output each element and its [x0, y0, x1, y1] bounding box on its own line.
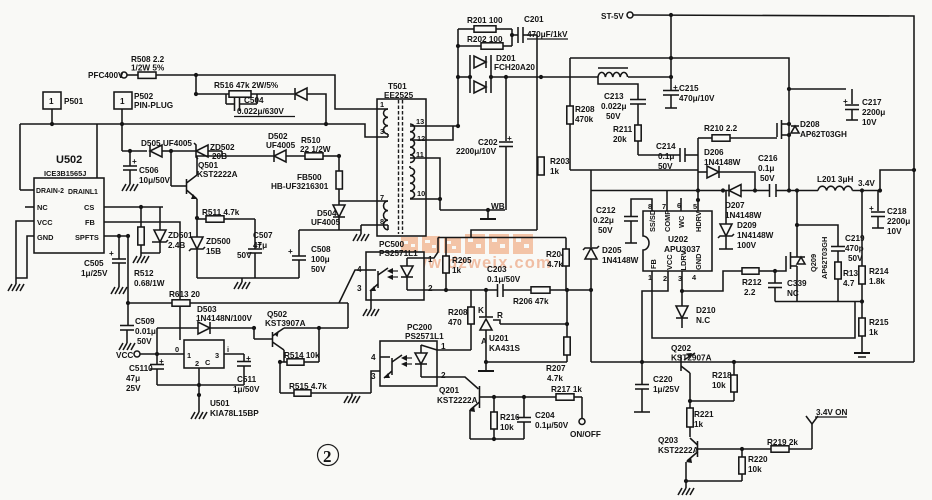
transformer T501 EE2525	[377, 82, 426, 236]
svg-text:50V: 50V	[848, 254, 863, 263]
node	[878, 188, 882, 192]
svg-text:1: 1	[187, 351, 191, 360]
capacitor C217	[843, 89, 859, 120]
transistor Q501	[171, 151, 197, 199]
svg-text:1/2W 5%: 1/2W 5%	[131, 64, 165, 73]
node	[120, 122, 124, 126]
label C508	[311, 245, 331, 274]
node	[194, 73, 198, 77]
wire emitter drop	[347, 303, 349, 328]
svg-text:3.4V ON: 3.4V ON	[816, 408, 847, 417]
svg-text:2: 2	[441, 371, 446, 380]
svg-text:1: 1	[120, 97, 125, 106]
node	[696, 198, 700, 202]
node	[732, 360, 736, 364]
svg-text:C220: C220	[653, 375, 673, 384]
svg-text:R212: R212	[742, 278, 762, 287]
wire PC200 pin2 to Q201 base	[437, 377, 479, 389]
label C218	[887, 207, 910, 236]
svg-text:D210: D210	[696, 306, 716, 315]
IC U501	[175, 340, 259, 418]
svg-text:R217 1k: R217 1k	[551, 385, 582, 394]
wire row 230	[471, 230, 537, 238]
svg-text:4.7: 4.7	[843, 279, 855, 288]
svg-text:Q209: Q209	[809, 254, 818, 272]
svg-text:ZD502: ZD502	[210, 143, 235, 152]
node	[492, 395, 496, 399]
svg-text:10μ/50V: 10μ/50V	[139, 176, 170, 185]
wire pin6 stub	[680, 198, 682, 211]
resistor R221	[687, 401, 714, 437]
node	[522, 395, 526, 399]
transistor Q502	[254, 328, 284, 350]
svg-text:D502: D502	[268, 132, 288, 141]
resistor R206	[513, 287, 591, 306]
svg-text:Q203: Q203	[658, 436, 678, 445]
svg-text:ICE3B1565J: ICE3B1565J	[44, 169, 86, 178]
svg-text:C506: C506	[139, 166, 159, 175]
svg-text:D209: D209	[737, 221, 757, 230]
optocoupler PC200	[371, 323, 446, 386]
svg-text:R210 2.2: R210 2.2	[704, 124, 738, 133]
svg-text:D206: D206	[704, 148, 724, 157]
ground	[119, 343, 135, 350]
svg-text:R510: R510	[301, 136, 321, 145]
svg-text:VCC: VCC	[665, 254, 674, 270]
svg-text:0.22μ: 0.22μ	[593, 216, 614, 225]
wire NC stub	[25, 206, 34, 208]
svg-text:+: +	[109, 249, 114, 258]
wire rail 362	[591, 361, 642, 363]
wire VCC stub	[16, 221, 34, 282]
wire	[96, 124, 98, 178]
svg-text:2.2: 2.2	[744, 288, 756, 297]
svg-text:C216: C216	[758, 154, 778, 163]
svg-text:R208: R208	[575, 105, 595, 114]
svg-text:4: 4	[692, 273, 697, 282]
svg-text:R211: R211	[613, 125, 633, 134]
svg-text:DRAIN-2: DRAIN-2	[36, 188, 64, 195]
node	[565, 288, 569, 292]
wire SPFTS row	[104, 235, 128, 237]
wire	[51, 109, 53, 124]
svg-text:R613 20: R613 20	[169, 290, 200, 299]
ground	[133, 256, 149, 263]
svg-text:0.1μ: 0.1μ	[758, 164, 774, 173]
svg-text:R208: R208	[448, 308, 468, 317]
svg-text:1k: 1k	[452, 266, 462, 275]
wire	[20, 189, 34, 191]
wire Q502 collector	[283, 350, 285, 362]
svg-text:2200μ/10V: 2200μ/10V	[456, 147, 497, 156]
node	[680, 289, 684, 293]
capacitor C218	[869, 191, 885, 229]
svg-text:2: 2	[195, 359, 199, 368]
node	[139, 205, 143, 209]
svg-text:C507: C507	[253, 231, 273, 240]
node	[197, 383, 201, 387]
wire	[195, 75, 197, 94]
wire PC500 pin1 up	[424, 238, 438, 259]
svg-text:Q502: Q502	[267, 310, 287, 319]
svg-text:470k: 470k	[575, 115, 594, 124]
ground U201	[478, 362, 494, 371]
svg-text:KST2222A: KST2222A	[197, 170, 238, 179]
resistor R210	[698, 124, 777, 141]
svg-text:DRAINL1: DRAINL1	[68, 189, 98, 196]
svg-text:HB-UF3216301: HB-UF3216301	[271, 182, 329, 191]
svg-text:PS2571L1: PS2571L1	[379, 249, 418, 258]
node	[753, 188, 757, 192]
dual diode D201	[470, 54, 535, 93]
wire	[19, 124, 21, 190]
wire PC200 pin1	[437, 349, 471, 351]
wire	[566, 290, 568, 324]
wire Q209 source	[796, 266, 798, 302]
wire Q209 drain	[797, 191, 838, 247]
capacitor C213	[601, 92, 646, 125]
wire	[127, 74, 138, 76]
svg-text:R218: R218	[712, 371, 732, 380]
svg-text:K: K	[478, 306, 484, 315]
wire PC500 pin2 row 290	[424, 289, 497, 291]
svg-text:1μ/25V: 1μ/25V	[81, 269, 108, 278]
T501 core	[399, 100, 403, 234]
svg-text:1k: 1k	[694, 420, 704, 429]
svg-text:GND: GND	[37, 233, 54, 242]
svg-text:47μ: 47μ	[253, 241, 267, 250]
svg-text:25V: 25V	[126, 384, 141, 393]
label Q201	[437, 386, 478, 405]
T501 primary winding 1-3	[377, 100, 388, 137]
node	[489, 75, 493, 79]
label C505	[81, 259, 108, 278]
svg-text:D503: D503	[197, 305, 217, 314]
svg-text:COMP: COMP	[663, 210, 672, 232]
svg-text:3: 3	[215, 351, 219, 360]
ground	[353, 234, 369, 241]
svg-text:13: 13	[416, 117, 424, 126]
svg-text:2: 2	[323, 447, 332, 466]
wire	[590, 170, 592, 247]
svg-text:C203: C203	[487, 265, 507, 274]
node	[155, 352, 159, 356]
node	[126, 234, 130, 238]
node	[539, 75, 543, 79]
wire drain bus	[20, 124, 377, 137]
wire to PC200 pin3	[371, 371, 380, 393]
svg-text:C509: C509	[135, 317, 155, 326]
wire pin10	[426, 198, 440, 200]
svg-text:ST-5V: ST-5V	[601, 12, 624, 21]
diode D210	[676, 291, 716, 328]
svg-text:1N4148W: 1N4148W	[602, 256, 639, 265]
resistor R510	[300, 136, 339, 159]
wire	[788, 89, 790, 191]
resistor R205	[443, 238, 472, 291]
wire	[590, 290, 592, 362]
capacitor C203	[487, 265, 531, 297]
node	[787, 133, 791, 137]
svg-text:R215: R215	[869, 318, 889, 327]
wire	[628, 76, 671, 78]
node	[688, 399, 692, 403]
wire row 397	[494, 396, 556, 398]
wire x458 vertical	[457, 29, 459, 126]
capacitor C212	[593, 199, 652, 243]
connector P502 PIN-PLUG	[114, 92, 173, 110]
wire	[852, 190, 880, 192]
svg-text:50V: 50V	[760, 174, 775, 183]
node	[669, 13, 673, 17]
svg-text:100μ: 100μ	[311, 255, 330, 264]
svg-text:C217: C217	[862, 98, 882, 107]
node	[128, 149, 132, 153]
capacitor C504	[226, 94, 257, 111]
svg-text:0.022μ/630V: 0.022μ/630V	[237, 107, 284, 116]
svg-text:C511: C511	[237, 375, 257, 384]
svg-text:PIN-PLUG: PIN-PLUG	[134, 101, 173, 110]
wire rail 362 left	[486, 361, 567, 363]
svg-text:FB: FB	[649, 259, 658, 269]
wire	[307, 94, 326, 124]
resistor R511	[197, 208, 240, 222]
label C504	[234, 96, 295, 117]
svg-text:+: +	[288, 247, 293, 256]
wire row 481	[686, 480, 742, 482]
svg-text:R206 47k: R206 47k	[513, 297, 549, 306]
node	[795, 223, 799, 227]
svg-text:D208: D208	[800, 120, 820, 129]
node	[669, 75, 673, 79]
U202 top pin numbers	[648, 201, 697, 211]
svg-text:KA431S: KA431S	[489, 344, 520, 353]
svg-text:15B: 15B	[206, 247, 221, 256]
svg-text:R214: R214	[869, 267, 889, 276]
svg-text:470p: 470p	[845, 244, 864, 253]
label Q203	[658, 436, 699, 455]
capacitor C339	[768, 271, 807, 302]
node	[696, 188, 700, 192]
terminal PFC400V	[88, 71, 127, 80]
svg-text:0.68/1W: 0.68/1W	[134, 279, 165, 288]
svg-text:PS2571L1: PS2571L1	[405, 332, 444, 341]
label Q502	[265, 310, 306, 328]
svg-text:ON/OFF: ON/OFF	[570, 430, 601, 439]
node	[444, 288, 448, 292]
resistor R216	[491, 397, 520, 439]
resistor R212	[742, 268, 775, 297]
node	[456, 75, 460, 79]
svg-text:12: 12	[417, 134, 425, 143]
resistor R208 470k	[567, 105, 595, 170]
node	[456, 124, 460, 128]
label C507	[237, 231, 273, 260]
svg-text:C505: C505	[84, 259, 104, 268]
svg-text:R221: R221	[694, 410, 714, 419]
capacitor C511	[199, 354, 260, 394]
wire	[569, 58, 571, 106]
wire C201 right down	[536, 35, 538, 230]
svg-text:7: 7	[662, 202, 666, 211]
svg-text:U202: U202	[668, 234, 688, 244]
svg-text:U501: U501	[210, 399, 230, 408]
mosfet D208	[777, 120, 847, 139]
svg-text:10k: 10k	[712, 381, 726, 390]
diode D502	[222, 132, 305, 162]
wire CS row	[104, 206, 163, 208]
svg-text:1N4148W: 1N4148W	[737, 231, 774, 240]
svg-text:KIA78L15BP: KIA78L15BP	[210, 409, 259, 418]
ground	[191, 395, 207, 419]
svg-text:0.01μ: 0.01μ	[135, 327, 156, 336]
svg-text:C5110: C5110	[129, 364, 153, 373]
svg-text:1: 1	[49, 97, 54, 106]
svg-text:WC: WC	[677, 215, 686, 228]
node	[787, 188, 791, 192]
wire FB pin1 feedback	[652, 271, 855, 338]
svg-text:P502: P502	[134, 92, 154, 101]
node	[324, 122, 328, 126]
label C217	[862, 98, 885, 127]
T501 secondary winding 11-10	[410, 166, 426, 199]
wire to transformer pin1	[196, 75, 377, 109]
node	[510, 33, 514, 37]
IC U202	[643, 211, 712, 271]
resistor R220	[739, 449, 768, 481]
label Q202	[671, 344, 712, 363]
wire	[670, 15, 672, 77]
svg-text:UF4005: UF4005	[311, 218, 341, 227]
transistor Q203	[686, 438, 742, 481]
transistor Q201	[469, 386, 494, 439]
node	[787, 122, 791, 126]
svg-text:AP62T03GH: AP62T03GH	[800, 130, 847, 139]
ground	[344, 393, 360, 403]
svg-text:D201: D201	[496, 54, 516, 63]
wire VCC up to D503	[156, 328, 158, 354]
svg-text:C201: C201	[524, 15, 544, 24]
svg-text:R: R	[497, 311, 503, 320]
capacitor C509	[120, 303, 156, 346]
svg-text:470μ/10V: 470μ/10V	[679, 94, 715, 103]
terminal ON/OFF	[570, 397, 601, 439]
capacitor C508	[288, 230, 306, 278]
wire bottom row	[197, 277, 299, 279]
resistor R202	[458, 35, 512, 49]
svg-text:L201 3μH: L201 3μH	[817, 175, 853, 184]
node	[169, 149, 173, 153]
svg-text:SS/SD: SS/SD	[648, 209, 657, 232]
node	[438, 197, 442, 201]
resistor R207	[546, 324, 570, 383]
svg-text:C: C	[205, 358, 211, 367]
inductor L201	[817, 175, 853, 191]
resistor R217	[551, 385, 582, 400]
node	[117, 234, 121, 238]
label C202	[456, 138, 498, 156]
wire pin13 rail	[426, 125, 458, 127]
svg-text:4.7k: 4.7k	[547, 260, 563, 269]
node WB	[486, 202, 505, 212]
svg-text:50V: 50V	[598, 226, 613, 235]
wire rail 190.5	[591, 190, 723, 192]
svg-text:FB500: FB500	[297, 173, 322, 182]
ground	[678, 481, 694, 495]
svg-text:1μ/50V: 1μ/50V	[233, 385, 260, 394]
svg-text:50V: 50V	[137, 337, 152, 346]
node	[195, 216, 199, 220]
wire pin8/ground row	[299, 225, 377, 234]
svg-text:D207: D207	[725, 201, 745, 210]
wire FB stub	[104, 222, 180, 340]
svg-text:5: 5	[693, 202, 697, 211]
svg-text:2.4B: 2.4B	[168, 241, 185, 250]
wire pin11	[426, 158, 440, 210]
diode D506	[295, 88, 307, 100]
capacitor C505	[109, 236, 126, 287]
capacitor C215	[663, 77, 679, 108]
capacitor C204	[517, 397, 569, 439]
wire pin7 stub	[666, 191, 668, 212]
wire x698 vertical	[697, 138, 699, 211]
svg-text:1k: 1k	[869, 328, 879, 337]
svg-text:KST2222A: KST2222A	[437, 396, 478, 405]
resistor R201	[458, 16, 512, 32]
svg-text:PC200: PC200	[407, 323, 432, 332]
svg-text:3: 3	[371, 372, 376, 381]
label C506	[139, 166, 170, 185]
diode D209	[718, 191, 774, 251]
svg-text:100V: 100V	[737, 241, 757, 250]
node	[484, 360, 488, 364]
svg-text:1: 1	[380, 100, 384, 109]
T501 aux winding 7-8	[377, 193, 388, 230]
node	[468, 75, 472, 79]
node	[194, 92, 198, 96]
resistor R515	[280, 362, 371, 396]
node	[492, 437, 496, 441]
node	[740, 447, 744, 451]
resistor R13	[835, 262, 859, 302]
wire pin3	[224, 353, 244, 355]
node	[252, 326, 256, 330]
node	[50, 122, 54, 126]
svg-text:50V: 50V	[237, 251, 252, 260]
svg-text:1μ/25V: 1μ/25V	[653, 385, 680, 394]
wire Q501 collector	[197, 151, 222, 175]
svg-text:2: 2	[428, 284, 433, 293]
label R512	[134, 269, 165, 288]
wire Q502 emitter row	[284, 327, 348, 329]
resistor R203	[538, 157, 570, 176]
wire rail 77 to inductor	[491, 76, 598, 78]
svg-text:C508: C508	[311, 245, 331, 254]
wire row 237	[438, 237, 566, 239]
svg-text:VCC: VCC	[116, 351, 133, 360]
wire pin3 LDRV	[681, 271, 683, 291]
capacitor C214	[656, 142, 698, 171]
ground	[234, 278, 250, 289]
wire pin12	[426, 126, 453, 140]
node	[197, 393, 201, 397]
ground	[854, 353, 870, 357]
node	[337, 154, 341, 158]
wire top border	[633, 15, 914, 362]
wire rail 170	[570, 169, 698, 171]
wire 151 row	[122, 150, 147, 152]
svg-text:2: 2	[663, 274, 667, 283]
